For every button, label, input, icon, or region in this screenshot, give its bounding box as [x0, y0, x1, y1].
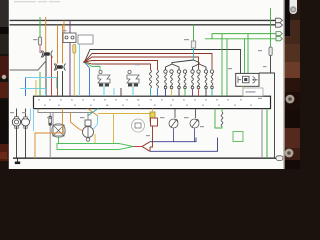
oxygen sensor S1: [169, 119, 178, 128]
fuse IGN: [269, 47, 272, 56]
motor M1: [12, 118, 20, 126]
navy expand bundle: [142, 138, 218, 152]
power bus double lines: [10, 20, 276, 24]
wire black to igniter: [85, 50, 241, 75]
wire teal crossing: [88, 109, 99, 117]
left dark strip: [0, 0, 10, 169]
connector green outline: [233, 132, 243, 142]
wire green bus drop B: [226, 39, 228, 96]
wire gray extension: [88, 112, 93, 114]
wire yellow resistor stub: [152, 109, 154, 113]
node splice junction: [83, 61, 85, 63]
wire cyan pump return: [94, 116, 98, 129]
wire green ISC loop: [215, 109, 222, 129]
wire teal injector bus: [193, 48, 195, 60]
wire navy run lower: [150, 138, 218, 152]
wire green to ECM: [39, 72, 41, 96]
wire tree twig 2: [172, 64, 179, 70]
fuel pump P2 assembly: [85, 120, 91, 126]
VSV valve V2: [127, 70, 139, 86]
wire tree twig 3: [193, 64, 200, 70]
wire cyan from J1: [79, 44, 81, 96]
green bus lines: [205, 34, 276, 39]
left column wires (top area): [10, 17, 94, 96]
oxygen sensors bottom center: [169, 109, 199, 142]
wire gray ECM ground: [261, 109, 263, 159]
fuse yellow: [73, 45, 76, 54]
ground symbol: [17, 158, 19, 162]
wire green to distributor 1: [244, 39, 246, 74]
connectors green bus ends: [276, 32, 282, 41]
right area: distributor / igniter: [222, 8, 275, 158]
below ECM : left components: [12, 109, 144, 159]
distributor box U2: [236, 73, 259, 86]
resistor coils R4 R5: [150, 70, 159, 88]
distributor rotor arc: [253, 77, 258, 84]
wire cyan lower branch: [20, 89, 46, 97]
wire cyan upper branch: [26, 78, 57, 89]
wire tree twig 4: [199, 64, 206, 70]
distributor pickup square: [243, 76, 250, 83]
wire cyan V2 to ECM: [132, 87, 134, 97]
wire purple ignition feed: [69, 20, 71, 33]
wire gray pump feed: [38, 109, 88, 121]
wire purple to ECM: [69, 43, 71, 97]
wire black to sensor S1: [174, 109, 176, 119]
wire cyan stub a: [113, 88, 115, 96]
connector rail end: [276, 156, 283, 161]
wire black fuse to igniter: [270, 56, 272, 74]
tiny reference labels: [10, 30, 267, 136]
wire red bundle link: [133, 146, 142, 148]
wire orange main feed: [45, 17, 47, 52]
wire black igniter ground loop: [259, 73, 275, 158]
wire orange to relay R2: [63, 20, 65, 33]
label box tacho: [243, 88, 263, 96]
photo background: [0, 0, 300, 169]
wire gray from page edge: [10, 62, 46, 71]
wire gray to fuse pill: [49, 113, 51, 117]
wire black to ECM: [62, 71, 64, 96]
VSV valve V1: [98, 70, 139, 86]
wire pink fuse output: [39, 45, 41, 53]
wire yellow fuse output: [73, 53, 75, 96]
wire black to motor M1: [16, 109, 18, 119]
wire orange relay feed 1: [57, 25, 59, 64]
motor M2: [22, 118, 30, 126]
wire navy S1 down: [173, 129, 175, 142]
wire green VSV feed: [85, 62, 101, 71]
wire green injector supply: [193, 25, 195, 41]
wire teal coil output 1: [150, 88, 152, 96]
wire black to sensor S2: [195, 109, 197, 119]
wire green ECM ground: [266, 109, 268, 159]
resistor block yellow: [150, 112, 155, 122]
check valve C1: [132, 119, 145, 132]
wire M2 to ground: [25, 126, 27, 158]
wire maroon resistor feed 2: [85, 61, 158, 71]
faint title text: [14, 1, 60, 2]
wire yellow pump sender: [94, 134, 96, 144]
wire cyan short: [30, 109, 32, 122]
relay R3 plug: [57, 65, 63, 69]
distributor left pin: [238, 77, 241, 84]
wire green ground bus upper: [57, 136, 133, 150]
wire orange to pump P2: [71, 113, 83, 131]
fuse pill inline: [49, 116, 52, 126]
junction box J1: [78, 35, 93, 44]
fan-out from junction: [83, 50, 240, 97]
connectors bus right ends: [276, 18, 283, 27]
wire blue coil output 2: [157, 88, 159, 96]
wire blue sensor return: [25, 78, 27, 97]
wire black relay output: [45, 56, 47, 96]
purple curls left of injectors to ECM: [114, 88, 121, 96]
wire red relay output: [51, 56, 53, 96]
wire yellow distributor signal: [242, 86, 244, 96]
ground rail: [13, 157, 277, 159]
wire maroon resistor feed 1: [85, 62, 151, 70]
oxygen sensor S2: [190, 119, 199, 128]
wire green bus drop A: [221, 34, 223, 96]
resistor element with yellow: [150, 109, 223, 148]
wire green IGN feed: [270, 8, 272, 47]
wire cyan long: [33, 109, 35, 132]
connector relay R3 brackets: [54, 64, 66, 71]
wire green ground bus lower: [57, 144, 133, 150]
injector feed tree: [166, 25, 207, 70]
wire tree branch right: [194, 60, 200, 64]
wire tree branch left: [172, 60, 194, 64]
wire maroon injector feed 2: [85, 57, 199, 69]
wires injector outputs to ECM: [166, 89, 213, 96]
ECM box U1: [34, 96, 271, 108]
wire M1 to ground: [16, 126, 18, 158]
scroll pill top right: [290, 0, 298, 14]
wire yellow stub: [35, 80, 37, 96]
wire black to motor M2: [25, 109, 27, 119]
injectors bank: [164, 70, 214, 89]
white page: [10, 0, 284, 169]
ECM pin numbers row: [38, 98, 262, 106]
fuel pump P1: [52, 124, 66, 138]
wire green ISC stub: [221, 109, 223, 113]
wire maroon bundle tail: [149, 147, 151, 151]
wire yellow horizontal run: [98, 114, 150, 144]
ECM box: [34, 96, 271, 108]
fuse EFI: [38, 37, 41, 45]
wire navy S2 down: [194, 129, 196, 142]
wire maroon injector feed 1: [85, 54, 213, 70]
wire tree twig 1: [166, 64, 173, 70]
relay R2 circuit opening: [63, 33, 76, 43]
wire brown to ECM: [57, 71, 59, 96]
bundle split symbol: [142, 142, 150, 152]
wire orange crossing: [88, 109, 99, 117]
connector relay R1 brackets: [41, 51, 53, 58]
wire black stub b: [120, 88, 122, 96]
wire navy run upper: [150, 138, 196, 142]
wire maroon resistor to bundle: [150, 126, 153, 147]
ISC solenoid coil: [221, 112, 223, 126]
wire yellow drop: [113, 114, 115, 144]
wire cyan V1 to ECM: [103, 87, 105, 97]
wire green EFI feed: [39, 17, 41, 37]
wire gray to ground: [49, 126, 51, 159]
fuse injector: [191, 41, 195, 48]
wire green to distributor 2: [247, 34, 249, 74]
wire blue to ECM: [85, 62, 90, 96]
right photo area: [283, 0, 300, 169]
relay R1 plug: [44, 52, 50, 56]
wire orange relay feed 2: [62, 25, 64, 64]
wire orange ECM to ground: [35, 109, 63, 159]
resistor housing: [151, 118, 158, 126]
